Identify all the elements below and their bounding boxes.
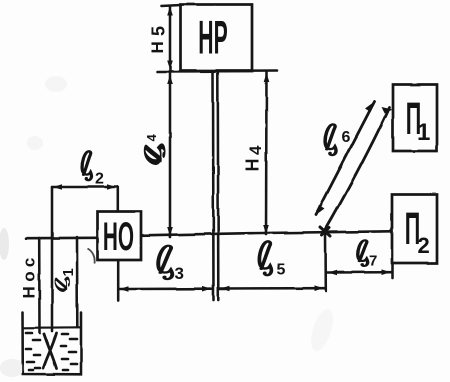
svg-text:НР: НР: [198, 11, 227, 64]
svg-text:1: 1: [417, 119, 430, 146]
svg-text:Н: Н: [148, 41, 167, 53]
svg-text:НО: НО: [103, 214, 134, 259]
svg-text:Нос: Нос: [20, 253, 39, 298]
svg-text:5: 5: [149, 26, 169, 36]
svg-text:Н: Н: [243, 159, 263, 172]
svg-text:2: 2: [418, 233, 430, 258]
svg-text:6: 6: [342, 129, 351, 146]
svg-text:4: 4: [246, 145, 265, 155]
svg-text:1: 1: [60, 268, 77, 276]
svg-text:3: 3: [175, 264, 184, 283]
svg-text:7: 7: [369, 253, 377, 270]
svg-text:2: 2: [95, 171, 104, 188]
svg-text:4: 4: [144, 134, 159, 142]
svg-text:5: 5: [277, 262, 286, 279]
